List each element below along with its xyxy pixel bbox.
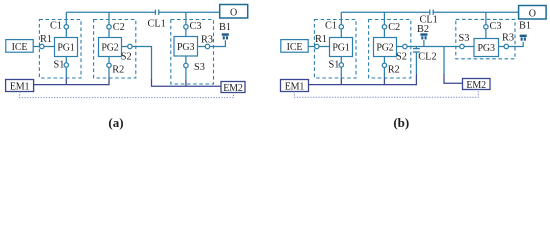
clutch CL2 (b) bbox=[415, 47, 417, 49]
motor box EM2 (b) bbox=[463, 79, 491, 90]
node S2 (a) bbox=[128, 44, 132, 48]
wire C1 riser (a) bbox=[65, 12, 67, 37]
clutch CL1 (b) bbox=[429, 10, 431, 15]
svg-text:S3: S3 bbox=[194, 62, 205, 73]
wire S2 to EM2 upper segment (a) bbox=[132, 47, 151, 80]
node R1 (a) bbox=[40, 44, 44, 48]
battery B1 (b) bbox=[520, 35, 527, 41]
motor box EM2 (a) bbox=[221, 82, 245, 93]
wire R1 to PG1 (a) bbox=[44, 46, 55, 48]
svg-text:S1: S1 bbox=[54, 60, 65, 71]
svg-text:PG1: PG1 bbox=[57, 43, 74, 54]
gearbox PG3 (a) bbox=[174, 37, 198, 57]
wire top bus left segment (a) bbox=[66, 11, 155, 13]
battery B1 (a) bbox=[222, 33, 229, 39]
electric link EM1-EM2 dotted (a) bbox=[20, 92, 234, 98]
svg-text:R1: R1 bbox=[315, 34, 327, 45]
wire R3 to B1 (a) bbox=[210, 40, 226, 46]
wire C3 riser (b) bbox=[485, 12, 487, 38]
svg-text:EM2: EM2 bbox=[223, 83, 243, 94]
wire R2 to EM1 bus (b) bbox=[383, 78, 385, 85]
wire R3 to B1 (b) bbox=[509, 42, 524, 47]
dashed gearset box PG1 (a) bbox=[39, 20, 81, 79]
gearbox PG3 (b) bbox=[474, 39, 499, 57]
dashed gearset box PG1 (b) bbox=[314, 20, 356, 79]
wire top bus right segment (b) bbox=[433, 11, 518, 13]
svg-text:S2: S2 bbox=[396, 52, 407, 63]
svg-text:CL1: CL1 bbox=[148, 19, 166, 30]
dashed gearset box PG2 (a) bbox=[94, 20, 136, 79]
svg-text:EM2: EM2 bbox=[466, 80, 486, 91]
svg-text:R1: R1 bbox=[40, 34, 52, 45]
wire shaft drop to EM2 upper segment (b) bbox=[443, 47, 445, 75]
svg-text:S3: S3 bbox=[459, 33, 470, 44]
wire S2 to S3 main shaft (b) bbox=[407, 46, 460, 48]
svg-text:R2: R2 bbox=[388, 65, 400, 76]
wire R1 to PG1 (b) bbox=[319, 46, 330, 48]
svg-text:ICE: ICE bbox=[12, 42, 28, 53]
svg-text:R3: R3 bbox=[502, 33, 514, 44]
wire ICE to R1 (b) bbox=[309, 46, 315, 48]
wire R2 drop (b) bbox=[383, 57, 385, 79]
svg-text:PG1: PG1 bbox=[332, 43, 349, 54]
dashed gearset box PG2 (b) bbox=[369, 20, 411, 79]
wire PG3 to R3 (b) bbox=[499, 46, 505, 48]
wire C2 riser (b) bbox=[383, 12, 385, 37]
wire S2 to EM2 lower segment (a) bbox=[152, 79, 222, 86]
wire top bus left segment (b) bbox=[341, 11, 430, 13]
wire shaft to EM2 lower segment (b) bbox=[444, 74, 463, 83]
svg-text:B2: B2 bbox=[417, 24, 429, 35]
node C2 (b) bbox=[382, 25, 386, 29]
node S3 (a) bbox=[184, 63, 188, 67]
dashed gearset box PG3 (b) bbox=[456, 19, 515, 58]
wire S1 to EM1 bus (a) bbox=[65, 78, 67, 85]
output box O (b) bbox=[519, 6, 547, 20]
node R1 (b) bbox=[315, 44, 319, 48]
gearbox PG1 (b) bbox=[330, 38, 353, 57]
wire EM1 bus (a) bbox=[34, 84, 109, 86]
wire ICE to R1 (a) bbox=[34, 46, 40, 48]
svg-text:PG2: PG2 bbox=[376, 43, 393, 54]
node S1 (b) bbox=[339, 63, 343, 67]
wire C1 riser (b) bbox=[340, 12, 342, 37]
wire S1 drop (a) bbox=[65, 57, 67, 79]
svg-text:S1: S1 bbox=[329, 60, 340, 71]
output box O (a) bbox=[220, 5, 248, 19]
node C1 (a) bbox=[64, 25, 68, 29]
wire S1 to EM1 bus (b) bbox=[340, 78, 342, 85]
svg-text:EM1: EM1 bbox=[10, 81, 30, 92]
wire PG2 to S2 (a) bbox=[122, 46, 128, 48]
svg-text:B1: B1 bbox=[219, 22, 231, 33]
battery B2 (b) bbox=[420, 33, 427, 39]
svg-text:EM1: EM1 bbox=[285, 81, 305, 92]
electric link EM1-EM2 dotted (b) bbox=[295, 90, 479, 98]
wire PG3 to R3 (a) bbox=[198, 46, 206, 48]
wire PG2 to S2 (b) bbox=[397, 46, 403, 48]
node S3 (b) bbox=[460, 44, 464, 48]
wire S3 drop (a) bbox=[185, 56, 187, 80]
wire B2 stub (b) bbox=[423, 40, 425, 47]
node C3 (a) bbox=[184, 25, 188, 29]
wire C2 riser (a) bbox=[108, 12, 110, 37]
svg-text:B1: B1 bbox=[519, 21, 531, 32]
motor box EM1 (b) bbox=[281, 80, 309, 92]
svg-text:C1: C1 bbox=[50, 20, 62, 31]
svg-text:S2: S2 bbox=[121, 52, 132, 63]
node R3 (b) bbox=[504, 44, 508, 48]
wire EM1 bus (b) bbox=[309, 84, 417, 86]
wire top bus right segment (a) bbox=[159, 11, 220, 13]
wire S1 drop (b) bbox=[340, 57, 342, 79]
node S2 (b) bbox=[403, 44, 407, 48]
dashed gearset box PG3 (a) bbox=[171, 20, 214, 85]
node C2 (a) bbox=[107, 25, 111, 29]
svg-text:PG2: PG2 bbox=[101, 43, 118, 54]
motor box EM1 (a) bbox=[6, 80, 34, 92]
svg-text:(a): (a) bbox=[108, 115, 123, 130]
svg-text:C2: C2 bbox=[113, 22, 125, 33]
wire R2 to EM1 bus (a) bbox=[108, 78, 110, 85]
svg-text:(b): (b) bbox=[393, 115, 409, 130]
clutch CL1 (a) bbox=[154, 10, 156, 15]
node R2 (b) bbox=[382, 63, 386, 67]
svg-text:CL2: CL2 bbox=[418, 52, 436, 63]
gearbox PG1 (a) bbox=[55, 38, 78, 57]
gearbox PG2 (a) bbox=[99, 38, 122, 57]
node R3 (a) bbox=[205, 44, 209, 48]
engine box ICE (a) bbox=[6, 40, 33, 53]
wire CL2 lower plate drop (b) bbox=[415, 53, 417, 74]
node S1 (a) bbox=[64, 63, 68, 67]
wire R2 drop (a) bbox=[108, 57, 110, 79]
wire S3 to PG3 (b) bbox=[464, 46, 474, 48]
svg-text:C1: C1 bbox=[325, 20, 337, 31]
svg-text:O: O bbox=[230, 7, 237, 18]
svg-text:ICE: ICE bbox=[287, 42, 303, 53]
svg-text:O: O bbox=[529, 8, 536, 19]
node R2 (a) bbox=[107, 63, 111, 67]
wire CL2 to EM1 bus (b) bbox=[415, 74, 417, 85]
svg-text:C3: C3 bbox=[190, 21, 202, 32]
svg-text:PG3: PG3 bbox=[177, 42, 194, 53]
node C3 (b) bbox=[484, 25, 488, 29]
node C1 (b) bbox=[339, 25, 343, 29]
svg-text:PG3: PG3 bbox=[478, 43, 495, 54]
svg-text:R2: R2 bbox=[112, 65, 124, 76]
gearbox PG2 (b) bbox=[374, 38, 397, 57]
svg-text:C3: C3 bbox=[490, 21, 502, 32]
svg-text:R3: R3 bbox=[201, 35, 213, 46]
engine box ICE (b) bbox=[281, 40, 308, 53]
wire C3 riser (a) bbox=[185, 12, 187, 36]
svg-text:C2: C2 bbox=[388, 22, 400, 33]
wire S3 to EM2 bus (a) bbox=[185, 80, 187, 86]
